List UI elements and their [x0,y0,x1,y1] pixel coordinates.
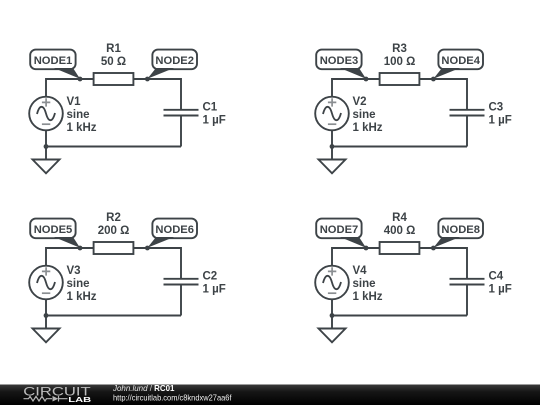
capacitor C2 [164,279,199,285]
svg-text:NODE8: NODE8 [441,224,480,236]
capacitor C4 [450,279,485,285]
svg-text:1 µF: 1 µF [489,284,512,296]
wire: V4 negative terminal down [331,299,333,315]
svg-text:C2: C2 [203,271,218,283]
CircuitLab logo diode symbol [53,396,59,402]
wire: bottom return wire [332,315,467,317]
svg-text:R2: R2 [106,212,121,224]
svg-text:V1: V1 [67,96,82,108]
wire: R2 right terminal to capacitor C2 top [133,248,181,279]
node NODE1 flag [30,50,80,79]
wire: R1 right terminal to capacitor C1 top [133,79,181,110]
wire: V3 positive terminal up to node NODE5 [46,248,94,266]
resistor R4 [380,242,420,254]
svg-text:C3: C3 [489,102,504,114]
wire: capacitor C3 bottom lead [466,115,468,146]
resistor R2 [94,242,134,254]
svg-text:50 Ω: 50 Ω [101,56,126,68]
node NODE1 junction dot [78,77,83,82]
CircuitLab logo resistor zigzag [24,396,53,401]
node NODE2 flag [147,50,197,79]
node NODE6 flag [147,219,197,248]
svg-text:NODE5: NODE5 [34,224,73,236]
svg-text:R4: R4 [392,212,407,224]
wire: R3 right terminal to capacitor C3 top [419,79,467,110]
svg-text:400 Ω: 400 Ω [384,225,416,237]
svg-text:R1: R1 [106,43,121,55]
svg-text:V4: V4 [353,265,368,277]
svg-text:1 kHz: 1 kHz [67,122,97,134]
wire: bottom return wire [46,315,181,317]
node NODE4 flag [433,50,483,79]
wire: V1 positive terminal up to node NODE1 [46,79,94,97]
wire: capacitor C2 bottom lead [180,284,182,315]
wire: V2 positive terminal up to node NODE3 [332,79,380,97]
svg-text:NODE2: NODE2 [155,55,194,67]
junction: V4 negative / ground / return wire [330,313,335,318]
svg-text:NODE4: NODE4 [441,55,480,67]
svg-text:NODE6: NODE6 [155,224,194,236]
svg-text:John.lund / RC01: John.lund / RC01 [112,383,175,393]
svg-text:1 kHz: 1 kHz [353,122,383,134]
svg-text:R3: R3 [392,43,407,55]
wire: V1 negative terminal down [45,130,47,146]
svg-text:V2: V2 [353,96,367,108]
node NODE8 junction dot [431,246,436,251]
wire: bottom return wire [332,146,467,148]
resistor R1 [94,73,134,85]
svg-text:1 µF: 1 µF [203,284,226,296]
svg-text:http://circuitlab.com/c8kndxw2: http://circuitlab.com/c8kndxw27aa6f [113,393,232,403]
svg-text:V3: V3 [67,265,81,277]
svg-text:200 Ω: 200 Ω [98,225,130,237]
svg-text:NODE7: NODE7 [320,224,359,236]
ground [33,147,60,174]
node NODE4 junction dot [431,77,436,82]
svg-text:C4: C4 [489,271,504,283]
svg-text:sine: sine [353,109,376,121]
svg-text:NODE1: NODE1 [34,55,73,67]
svg-text:100 Ω: 100 Ω [384,56,416,68]
voltage source V1 (sine) [29,97,63,131]
resistor R3 [380,73,420,85]
node NODE5 flag [30,219,80,248]
node NODE3 junction dot [364,77,369,82]
svg-text:sine: sine [353,278,376,290]
node NODE7 junction dot [364,246,369,251]
wire: V4 positive terminal up to node NODE7 [332,248,380,266]
svg-text:NODE3: NODE3 [320,55,359,67]
junction: V3 negative / ground / return wire [44,313,49,318]
capacitor C3 [450,110,485,116]
node NODE3 flag [316,50,366,79]
node NODE2 junction dot [145,77,150,82]
svg-text:sine: sine [67,278,90,290]
node NODE7 flag [316,219,366,248]
node NODE8 flag [433,219,483,248]
wire: V3 negative terminal down [45,299,47,315]
capacitor C1 [164,110,199,116]
svg-text:1 µF: 1 µF [489,115,512,127]
wire: capacitor C1 bottom lead [180,115,182,146]
wire: bottom return wire [46,146,181,148]
svg-text:1 µF: 1 µF [203,115,226,127]
node NODE5 junction dot [78,246,83,251]
wire: V2 negative terminal down [331,130,333,146]
node NODE6 junction dot [145,246,150,251]
wire: R4 right terminal to capacitor C4 top [419,248,467,279]
svg-text:LAB: LAB [68,395,92,404]
wire: capacitor C4 bottom lead [466,284,468,315]
svg-text:sine: sine [67,109,90,121]
footer bar [0,385,540,405]
ground [319,147,346,174]
svg-text:1 kHz: 1 kHz [67,291,97,303]
ground [33,316,60,343]
voltage source V2 (sine) [315,97,349,131]
voltage source V3 (sine) [29,266,63,300]
junction: V1 negative / ground / return wire [44,144,49,149]
svg-text:C1: C1 [203,102,218,114]
ground [319,316,346,343]
junction: V2 negative / ground / return wire [330,144,335,149]
svg-text:1 kHz: 1 kHz [353,291,383,303]
voltage source V4 (sine) [315,266,349,300]
